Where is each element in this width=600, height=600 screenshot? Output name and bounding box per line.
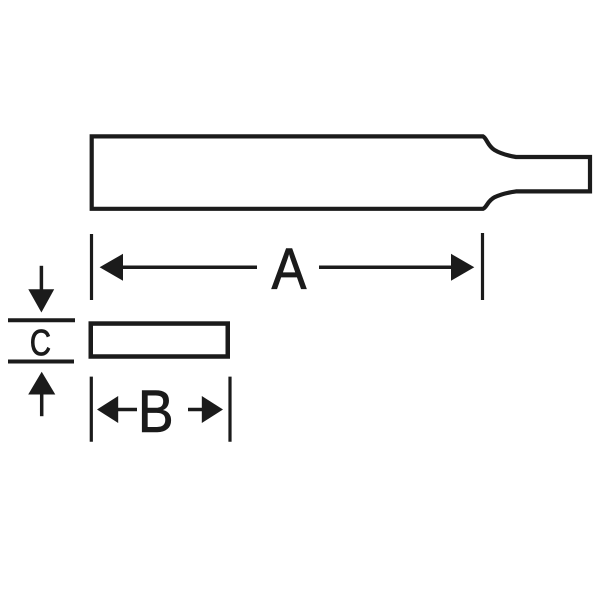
dimension B left arrowhead <box>97 396 118 423</box>
dimension B right extension line <box>228 377 231 442</box>
dimension C up arrowhead <box>28 372 55 395</box>
dimension A right extension line <box>481 233 484 300</box>
label C <box>31 330 49 356</box>
dimension C down-arrow shaft <box>40 266 44 291</box>
dimension B right arrow line <box>188 408 204 412</box>
dimension C up-arrow shaft <box>40 393 44 416</box>
label B <box>142 391 170 432</box>
dimension B right arrowhead <box>202 396 223 423</box>
dimension C bottom line <box>8 360 74 364</box>
dimension B left extension line <box>90 377 93 442</box>
dimension A left arrow line <box>121 266 257 270</box>
dimension A left arrowhead <box>100 254 123 281</box>
label A <box>272 249 307 289</box>
dimension C top line <box>8 318 75 322</box>
dimension C down arrowhead <box>28 289 54 312</box>
cross-section rectangle <box>91 324 228 357</box>
dimension A right arrow line <box>319 266 453 270</box>
dimension B left arrow line <box>116 408 137 412</box>
dimension A right arrowhead <box>451 254 474 281</box>
file body outline with tang <box>92 136 590 208</box>
dimension A left extension line <box>90 234 93 300</box>
